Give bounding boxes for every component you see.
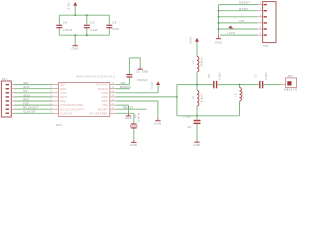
- svg-text:3.3V: 3.3V: [67, 2, 71, 9]
- svg-text:22nH: 22nH: [241, 91, 244, 98]
- svg-text:2.2uF: 2.2uF: [90, 28, 98, 32]
- svg-text:1000pF: 1000pF: [137, 78, 148, 82]
- svg-text:VSS: VSS: [102, 103, 108, 107]
- svg-text:C4: C4: [63, 20, 67, 24]
- svg-text:SDO: SDO: [23, 93, 30, 97]
- svg-text:RESET: RESET: [123, 105, 134, 109]
- svg-text:IRQ: IRQ: [60, 99, 66, 103]
- svg-text:10MHz: 10MHz: [137, 112, 140, 122]
- svg-text:C3: C3: [90, 20, 94, 24]
- svg-text:SDI: SDI: [60, 83, 65, 87]
- svg-text:GND: GND: [72, 46, 79, 50]
- svg-text:C7: C7: [255, 73, 258, 77]
- svg-text:GND: GND: [125, 117, 132, 120]
- svg-text:nCS: nCS: [60, 91, 66, 95]
- svg-text:C5: C5: [136, 70, 140, 73]
- svg-text:RFN: RFN: [102, 95, 108, 99]
- svg-text:C8: C8: [208, 73, 211, 77]
- svg-text:MRF49XATSSOP163: MRF49XATSSOP163: [76, 74, 115, 78]
- svg-text:JP2: JP2: [263, 44, 269, 48]
- svg-text:L2: L2: [234, 93, 237, 97]
- svg-text:INT/DIO: INT/DIO: [96, 83, 108, 87]
- svg-text:C9: C9: [112, 20, 116, 24]
- svg-text:SCK: SCK: [23, 85, 29, 89]
- svg-text:GND: GND: [142, 70, 148, 73]
- svg-text:GND: GND: [154, 121, 161, 125]
- svg-text:JP3: JP3: [288, 75, 294, 78]
- svg-text:GND: GND: [215, 41, 222, 44]
- svg-text:L3: L3: [192, 96, 195, 100]
- svg-text:CLKOUT: CLKOUT: [23, 110, 36, 114]
- svg-text:6.8nH: 6.8nH: [201, 94, 204, 102]
- svg-text:47uF: 47uF: [112, 27, 119, 31]
- svg-text:L1: L1: [192, 61, 195, 65]
- svg-text:GND: GND: [130, 143, 137, 147]
- svg-text:+3V3: +3V3: [227, 31, 235, 35]
- svg-text:RXD0: RXD0: [239, 7, 248, 11]
- svg-text:RCLKOUT: RCLKOUT: [23, 106, 38, 110]
- svg-text:CLKOUT: CLKOUT: [60, 111, 73, 115]
- svg-text:100nH: 100nH: [201, 57, 204, 66]
- svg-text:RSSIO: RSSIO: [98, 87, 108, 91]
- svg-text:SDO: SDO: [60, 95, 67, 99]
- svg-text:FSK: FSK: [23, 102, 29, 106]
- svg-text:3.3V: 3.3V: [150, 82, 154, 89]
- svg-text:C6: C6: [187, 125, 191, 129]
- svg-text:CS: CS: [23, 89, 27, 93]
- svg-text:+3V3: +3V3: [188, 36, 192, 44]
- svg-text:0.01uF: 0.01uF: [63, 28, 73, 32]
- svg-text:VDD: VDD: [102, 91, 108, 95]
- svg-text:SCK: SCK: [60, 87, 66, 91]
- svg-text:RESET: RESET: [98, 107, 108, 111]
- svg-text:JP1: JP1: [2, 78, 8, 81]
- svg-text:INT: INT: [121, 81, 127, 85]
- svg-text:3.9pF: 3.9pF: [219, 72, 222, 80]
- svg-text:RFP: RFP: [102, 99, 108, 103]
- svg-text:2.7pF: 2.7pF: [183, 115, 191, 119]
- svg-text:ME01TH: ME01TH: [284, 88, 297, 92]
- svg-text:INT: INT: [239, 19, 245, 23]
- svg-text:UC1: UC1: [56, 123, 63, 127]
- svg-text:GND: GND: [193, 143, 200, 147]
- svg-text:RESET: RESET: [239, 1, 250, 5]
- svg-text:XTL/EXTREF: XTL/EXTREF: [89, 111, 108, 115]
- svg-text:FSK/DATA/FSEL: FSK/DATA/FSEL: [60, 103, 84, 107]
- svg-text:SDI: SDI: [23, 81, 28, 85]
- svg-text:DCLK/CFIL/FFIT: DCLK/CFIL/FFIT: [60, 107, 84, 111]
- svg-text:IRQ: IRQ: [23, 97, 29, 101]
- svg-text:RQ/DIO: RQ/DIO: [120, 85, 131, 89]
- svg-text:1.2pF: 1.2pF: [265, 72, 268, 80]
